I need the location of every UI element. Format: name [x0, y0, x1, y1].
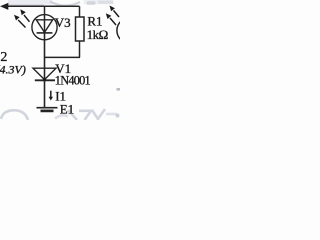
svg-text:1N4001: 1N4001 [55, 74, 91, 88]
svg-text:E1: E1 [60, 101, 74, 116]
svg-text:1kΩ: 1kΩ [87, 27, 108, 42]
svg-text:V3: V3 [55, 15, 71, 30]
svg-text:(4.3V): (4.3V) [0, 63, 26, 77]
